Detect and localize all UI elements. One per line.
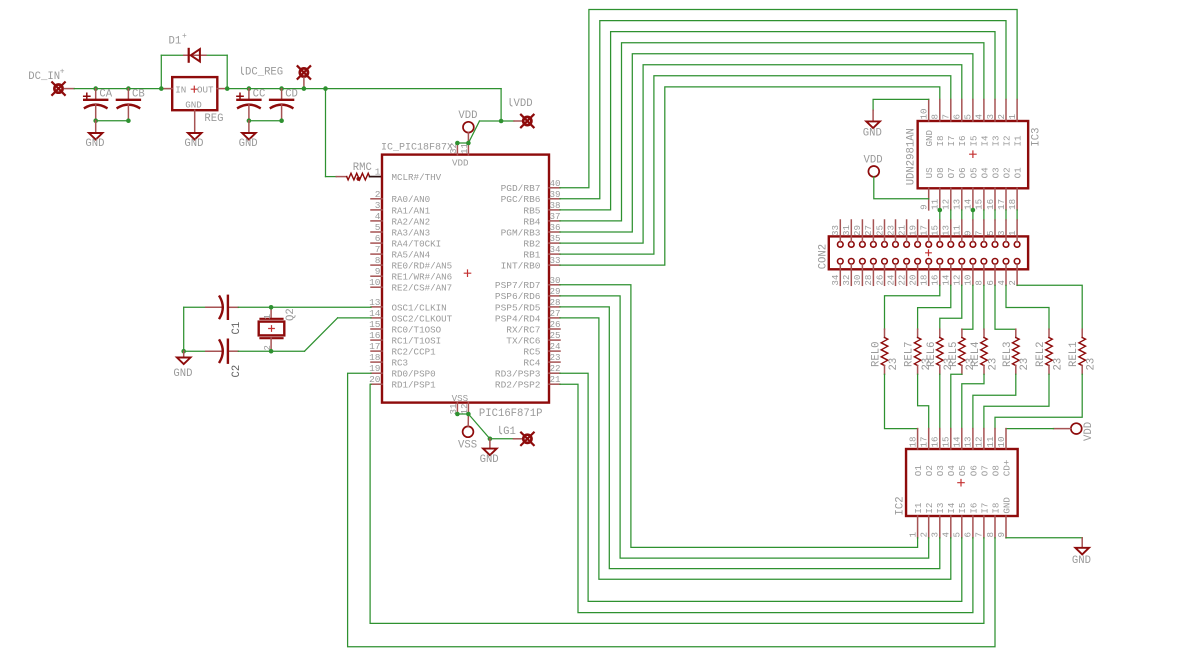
svg-text:22: 22	[896, 275, 907, 286]
pin 39 PGC/RB6	[501, 189, 561, 205]
pin 22 RD3/PSP3	[495, 363, 561, 379]
junction CC bottom	[247, 118, 252, 123]
pin 17 IC2 top (O2)	[919, 429, 936, 477]
pin 17 CON2 top	[919, 220, 930, 241]
supply VSS symbol below PIC	[458, 414, 477, 452]
pin 15 CON2 top	[930, 220, 941, 241]
IC U1 PIC18F87X microcontroller	[382, 155, 549, 404]
wire OSC1 net	[184, 306, 371, 308]
pin 15 IC2 top (O4)	[941, 429, 958, 477]
supply VDD left of IC3	[864, 154, 929, 198]
pin 26 CON2 bottom	[874, 265, 885, 286]
svg-text:29: 29	[852, 225, 863, 236]
svg-text:O1: O1	[1013, 167, 1024, 179]
label CB	[132, 89, 145, 101]
ground GND crystal	[173, 351, 192, 380]
svg-text:O5: O5	[968, 167, 979, 178]
label PIC16F871P	[479, 408, 543, 420]
svg-text:GND: GND	[863, 127, 882, 139]
svg-text:OSC2/CLKOUT: OSC2/CLKOUT	[392, 313, 453, 324]
junction IC3 pin12	[938, 208, 943, 213]
svg-text:12: 12	[974, 436, 985, 447]
svg-text:12: 12	[941, 199, 952, 210]
pin 30 PSP7/RD7	[495, 275, 561, 291]
svg-text:REL2: REL2	[1035, 342, 1047, 367]
junction REG OUT node	[225, 86, 230, 91]
resistor RMC	[336, 173, 369, 181]
pin 10 CON2 bottom	[963, 265, 974, 286]
wire net RB2 PIC to IC3	[560, 65, 962, 243]
svg-text:26: 26	[550, 319, 561, 330]
svg-text:C2: C2	[231, 365, 243, 378]
wire IC3 output to CON2 col10	[950, 210, 952, 220]
svg-text:VDD: VDD	[452, 158, 469, 169]
crystal Q2	[259, 307, 285, 351]
svg-text:2: 2	[375, 189, 381, 200]
pin 5 CON2 top	[985, 220, 996, 241]
pin 29 PSP6/RD6	[495, 286, 561, 302]
resistor REL5	[959, 329, 966, 374]
capacitor CD	[270, 89, 293, 121]
svg-text:11: 11	[952, 224, 963, 236]
label REL1	[1068, 342, 1080, 367]
svg-text:1: 1	[1007, 114, 1018, 120]
svg-text:10: 10	[919, 108, 930, 119]
pin 12 CON2 bottom	[952, 265, 963, 286]
junction OSC1 crystal	[269, 305, 274, 310]
svg-text:33: 33	[550, 255, 561, 266]
pin 11 VDD top	[459, 142, 470, 154]
svg-text:38: 38	[550, 200, 561, 211]
label REL0	[871, 342, 883, 367]
IC3 UDN2981AN driver	[918, 121, 1029, 188]
IC2 driver	[906, 449, 1018, 516]
svg-text:17: 17	[369, 341, 380, 352]
pin 16 IC2 top (O3)	[930, 429, 947, 477]
svg-text:RA1/AN1: RA1/AN1	[392, 205, 431, 216]
wire REL3 to IC2	[973, 374, 1016, 428]
capacitor CC	[237, 89, 261, 121]
pin 16 CON2 bottom	[930, 265, 941, 286]
value 23 of REL7	[921, 358, 933, 371]
svg-text:RC0/T1OSO: RC0/T1OSO	[392, 324, 442, 335]
svg-text:23: 23	[888, 358, 900, 371]
pin 21 RD2/PSP2	[495, 374, 561, 390]
svg-text:23: 23	[550, 352, 561, 363]
svg-text:7: 7	[974, 230, 985, 236]
svg-text:RX/RC7: RX/RC7	[506, 324, 540, 335]
svg-text:TX/RC6: TX/RC6	[506, 335, 541, 346]
pin 1 CON2 top	[1007, 220, 1018, 241]
svg-text:1: 1	[1007, 230, 1018, 236]
pin 15 RC0/T1OSO	[369, 319, 442, 335]
svg-text:GND: GND	[1001, 497, 1012, 514]
wire CON2 to REL0	[885, 285, 940, 329]
svg-text:15: 15	[974, 199, 985, 210]
svg-text:D1: D1	[169, 36, 182, 48]
pin 27 CON2 top	[863, 220, 874, 241]
pin 14 CON2 bottom	[941, 265, 952, 286]
svg-text:4: 4	[974, 114, 985, 120]
svg-text:CD: CD	[285, 89, 298, 101]
svg-text:25: 25	[874, 225, 885, 236]
svg-text:17: 17	[919, 225, 930, 236]
junction CB top	[126, 86, 131, 91]
pin 2 CON2 bottom	[1007, 265, 1018, 286]
pin 4 IC2 bottom (I4)	[941, 502, 958, 538]
pin 18 CON2 bottom	[919, 265, 930, 286]
svg-text:GND: GND	[1072, 555, 1091, 567]
svg-text:C1: C1	[231, 322, 243, 335]
svg-text:25: 25	[550, 330, 561, 341]
wire REL0 to IC2	[885, 374, 918, 428]
pin 24 RC5	[523, 341, 561, 357]
svg-text:RB2: RB2	[523, 239, 540, 250]
wire net RD5 PIC to IC2	[560, 307, 940, 569]
wire CON2 to REL1	[1017, 285, 1082, 329]
svg-text:INT/RB0: INT/RB0	[501, 261, 541, 272]
svg-text:1: 1	[262, 314, 273, 320]
wire net RD6 PIC to IC2	[560, 296, 929, 558]
wire DC_IN to regulator input	[65, 88, 173, 90]
pin 3 RA1/AN1	[371, 200, 431, 216]
svg-text:29: 29	[550, 286, 561, 297]
value 23 of REL3	[1019, 358, 1031, 371]
pin 8 CON2 bottom	[974, 265, 985, 286]
pin 12 IC3 bottom (O7)	[941, 167, 958, 210]
pin 2 Q2	[262, 345, 273, 351]
ground GND below CA/CB	[85, 121, 104, 151]
pin 32 VDD top	[448, 143, 459, 155]
value 23 of REL4	[987, 358, 999, 371]
label REL2	[1035, 342, 1047, 367]
svg-text:17: 17	[919, 436, 930, 447]
svg-text:15: 15	[930, 225, 941, 236]
pin 8 RE0/RD#/AN5	[371, 255, 452, 271]
pin 13 OSC1/CLKIN	[369, 297, 447, 313]
svg-text:13: 13	[963, 436, 974, 447]
svg-text:6: 6	[963, 532, 974, 538]
svg-text:O2: O2	[924, 465, 935, 476]
svg-text:OSC1/CLKIN: OSC1/CLKIN	[392, 302, 447, 313]
wire CON2 to REL2	[1006, 285, 1049, 329]
svg-text:RA3/AN3: RA3/AN3	[392, 227, 431, 238]
svg-text:9: 9	[996, 532, 1007, 538]
svg-text:VSS: VSS	[458, 440, 477, 452]
ground GND left of IC3	[863, 99, 929, 139]
svg-text:RC4: RC4	[523, 358, 540, 369]
svg-text:PGC/RB6: PGC/RB6	[501, 194, 541, 205]
svg-text:30: 30	[852, 275, 863, 286]
svg-text:RA5/AN4: RA5/AN4	[392, 250, 431, 261]
svg-text:RB5: RB5	[523, 205, 540, 216]
pin 12 IC2 top (O7)	[974, 429, 991, 477]
junction CB bottom	[126, 118, 131, 123]
pin 1 IC2 bottom (I1)	[907, 502, 924, 538]
svg-text:RA2/AN2: RA2/AN2	[392, 216, 431, 227]
wire net RD2 PIC to IC2	[560, 384, 973, 612]
svg-text:19: 19	[907, 225, 918, 236]
wire VSS diagonal to pad G1	[468, 414, 522, 439]
pin 19 RD0/PSP0	[369, 363, 436, 379]
svg-text:5: 5	[985, 230, 996, 236]
svg-text:GND: GND	[173, 368, 192, 380]
svg-text:I7: I7	[946, 135, 957, 146]
svg-text:PGD/RB7: PGD/RB7	[501, 183, 541, 194]
svg-text:10: 10	[963, 275, 974, 286]
pin 23 RC4	[523, 352, 560, 368]
svg-text:39: 39	[550, 189, 561, 200]
svg-text:CD+: CD+	[1001, 460, 1012, 477]
pin 2 IC3 top (I2)	[996, 100, 1013, 147]
pin 6 CON2 bottom	[985, 265, 996, 286]
label G1	[500, 426, 516, 438]
svg-text:+: +	[182, 32, 187, 41]
pin 24 CON2 bottom	[885, 265, 896, 286]
diode D1	[184, 49, 206, 62]
pin 34 RB1	[523, 244, 561, 260]
pin 5 IC3 top (I5)	[963, 100, 980, 147]
svg-text:RE0/RD#/AN5: RE0/RD#/AN5	[392, 261, 453, 272]
svg-text:18: 18	[369, 352, 381, 363]
svg-text:I4: I4	[979, 135, 990, 147]
wire VSS pins jumper	[457, 413, 468, 415]
svg-text:18: 18	[907, 436, 918, 447]
svg-text:16: 16	[930, 436, 941, 447]
pin 15 IC3 bottom (O4)	[974, 167, 991, 210]
pin 20 CON2 bottom	[907, 265, 918, 286]
label CON2	[817, 244, 829, 269]
svg-text:34: 34	[830, 274, 841, 286]
wire net RD1 PIC pin20 to IC2	[370, 384, 984, 623]
svg-text:2: 2	[1007, 280, 1018, 286]
svg-text:8: 8	[375, 255, 381, 266]
resistor REL7	[914, 329, 921, 374]
svg-text:UDN2981AN: UDN2981AN	[906, 128, 918, 185]
svg-text:15: 15	[941, 436, 952, 447]
junction GND node below PIC	[488, 437, 493, 442]
pin 26 RX/RC7	[506, 319, 560, 335]
supply VDD right of IC2	[1006, 422, 1095, 441]
wire IC3 output to CON2 col9	[939, 210, 941, 220]
pin 6 IC3 top (I6)	[952, 100, 969, 147]
pin 31 CON2 top	[841, 220, 852, 241]
svg-text:CB: CB	[132, 89, 145, 101]
pin 3 CON2 top	[996, 220, 1007, 241]
svg-text:O3: O3	[990, 167, 1001, 178]
svg-text:CC: CC	[253, 89, 266, 101]
pin 6 RA4/T0CKI	[371, 233, 441, 249]
wire IC3 output to CON2 col16	[1016, 210, 1018, 220]
svg-text:16: 16	[369, 330, 381, 341]
ground GND right of IC2	[1006, 538, 1091, 567]
label REL4	[970, 342, 982, 367]
svg-text:I8: I8	[990, 503, 1001, 514]
svg-text:RD1/PSP1: RD1/PSP1	[392, 380, 437, 391]
wire net RB5 PIC to IC3	[560, 32, 995, 210]
svg-text:3: 3	[996, 230, 1007, 236]
label REL7	[904, 342, 916, 367]
svg-text:IC_PIC18F87X: IC_PIC18F87X	[381, 142, 453, 153]
svg-text:REL5: REL5	[948, 342, 960, 367]
wire VDD to RMC	[326, 89, 337, 177]
label D1	[169, 32, 188, 48]
wire VDD pins jumper	[457, 142, 468, 144]
label REL3	[1002, 342, 1014, 367]
svg-text:PSP4/RD4: PSP4/RD4	[495, 313, 541, 324]
capacitor C1	[220, 296, 228, 319]
svg-text:O1: O1	[913, 465, 924, 477]
wire REL2 to IC2	[984, 374, 1049, 428]
pin 4 RA2/AN2	[371, 211, 430, 227]
pin 18 IC3 bottom (O1)	[1007, 167, 1024, 210]
svg-text:RE1/WR#/AN6: RE1/WR#/AN6	[392, 272, 453, 283]
label REL6	[926, 342, 938, 367]
svg-text:O6: O6	[968, 465, 979, 476]
svg-text:VDD: VDD	[1083, 422, 1095, 441]
pin 16 IC3 bottom (O3)	[985, 167, 1002, 210]
pin 13 IC3 bottom (O6)	[952, 167, 969, 210]
svg-text:14: 14	[952, 436, 963, 448]
svg-text:5: 5	[375, 222, 381, 233]
svg-text:I1: I1	[913, 502, 924, 514]
svg-text:I6: I6	[968, 503, 979, 514]
pin 31 VSS bottom	[448, 403, 459, 415]
label CC	[253, 89, 266, 101]
svg-text:O8: O8	[990, 465, 1001, 476]
ground GND below PIC	[480, 439, 499, 466]
pad DC_IN	[52, 82, 65, 95]
pin 3 IC3 top (I3)	[985, 100, 1002, 147]
svg-text:O8: O8	[935, 167, 946, 178]
wire IC3 output to CON2 col13	[983, 210, 985, 220]
svg-text:O7: O7	[979, 465, 990, 476]
svg-text:REG: REG	[204, 113, 223, 125]
junction CD bottom	[279, 118, 284, 123]
svg-text:O4: O4	[979, 167, 990, 179]
svg-text:23: 23	[885, 225, 896, 236]
svg-text:RD0/PSP0: RD0/PSP0	[392, 369, 436, 380]
junction crystal ground	[181, 349, 186, 354]
svg-text:RB4: RB4	[523, 216, 540, 227]
wire REL4 to IC2	[962, 374, 984, 428]
pin 33 CON2 top	[830, 220, 841, 241]
pin 14 IC3 bottom (O5)	[963, 167, 980, 210]
svg-text:8: 8	[930, 114, 941, 120]
wire CON2 to REL3	[995, 285, 1016, 329]
pad G1	[521, 433, 534, 446]
svg-text:REL1: REL1	[1068, 342, 1080, 367]
pin 40 PGD/RB7	[501, 178, 561, 194]
label REG	[204, 113, 223, 125]
pin 1 IC3 top (I1)	[1007, 100, 1024, 147]
value 23 of REL1	[1086, 358, 1098, 371]
pin 2 IC2 bottom (I2)	[919, 503, 936, 538]
svg-text:9: 9	[963, 230, 974, 236]
junction pin31 bottom	[455, 412, 460, 417]
wire CON2 to REL7	[918, 285, 951, 329]
svg-text:27: 27	[863, 225, 874, 236]
wire net RB4 PIC to IC3	[560, 43, 984, 221]
wire CC-CD bottoms	[249, 120, 282, 122]
svg-text:23: 23	[1052, 358, 1064, 371]
svg-text:US: US	[924, 167, 935, 179]
pin 18 RC3	[369, 352, 408, 368]
svg-text:RC5: RC5	[523, 347, 540, 358]
pin 9 IC2 bottom (GND)	[996, 497, 1013, 538]
wire net RD7 PIC to IC2	[560, 285, 918, 548]
value 23 of REL0	[888, 358, 900, 371]
svg-text:CA: CA	[99, 89, 112, 101]
svg-text:13: 13	[941, 225, 952, 236]
svg-text:24: 24	[550, 341, 562, 352]
wire REL6 to IC2	[939, 374, 941, 428]
svg-text:11: 11	[985, 436, 996, 448]
svg-text:9: 9	[919, 204, 930, 210]
wire D1 bypass right leg	[206, 55, 227, 88]
svg-text:O3: O3	[935, 465, 946, 476]
pin 7 IC3 top (I7)	[941, 100, 958, 147]
svg-text:33: 33	[830, 225, 841, 236]
svg-text:3: 3	[985, 114, 996, 120]
svg-text:O6: O6	[957, 167, 968, 178]
ground GND below CC	[239, 121, 258, 151]
wire net RD0 PIC pin19 to IC2	[348, 373, 995, 647]
capacitor CB	[117, 89, 140, 121]
svg-text:REL3: REL3	[1002, 342, 1014, 367]
value 23 of REL5	[965, 358, 977, 371]
pin 25 CON2 top	[874, 220, 885, 241]
svg-text:14: 14	[941, 274, 952, 286]
svg-text:8: 8	[985, 532, 996, 538]
svg-text:4: 4	[996, 280, 1007, 286]
pin 9 CON2 top	[963, 220, 974, 241]
pin 27 PSP4/RD4	[495, 308, 561, 324]
svg-text:15: 15	[369, 319, 381, 330]
pin 38 RB5	[523, 200, 560, 216]
wire CON2 to REL4	[983, 285, 985, 329]
pin 33 INT/RB0	[501, 255, 561, 271]
svg-text:1: 1	[907, 532, 918, 538]
svg-text:I6: I6	[957, 135, 968, 146]
svg-text:6: 6	[375, 233, 381, 244]
svg-text:18: 18	[919, 275, 930, 286]
svg-text:31: 31	[841, 224, 852, 236]
pin 7 CON2 top	[974, 220, 985, 241]
pin 14 OSC2/CLKOUT	[369, 308, 453, 324]
svg-text:24: 24	[885, 274, 896, 286]
svg-text:GND: GND	[184, 138, 203, 150]
pin 3 IC2 bottom (I3)	[930, 503, 947, 538]
pin 28 CON2 bottom	[863, 265, 874, 286]
svg-text:OUT: OUT	[197, 85, 214, 96]
svg-text:RC1/T1OSI: RC1/T1OSI	[392, 335, 442, 346]
label CD	[285, 89, 298, 101]
pin 13 CON2 top	[941, 220, 952, 241]
pin 37 RB4	[523, 211, 560, 227]
pin 4 CON2 bottom	[996, 265, 1007, 286]
svg-text:I7: I7	[979, 503, 990, 514]
junction REG IN node	[159, 86, 164, 91]
junction DC_REG	[302, 86, 307, 91]
junction pin11 top	[466, 141, 471, 146]
pin 12 VSS bottom	[459, 403, 470, 415]
svg-text:REL6: REL6	[926, 342, 938, 367]
junction CA top	[93, 86, 98, 91]
label IC2	[895, 496, 907, 515]
wire CA-CB bottoms	[96, 120, 129, 122]
pin 36 PGM/RB3	[501, 222, 561, 238]
